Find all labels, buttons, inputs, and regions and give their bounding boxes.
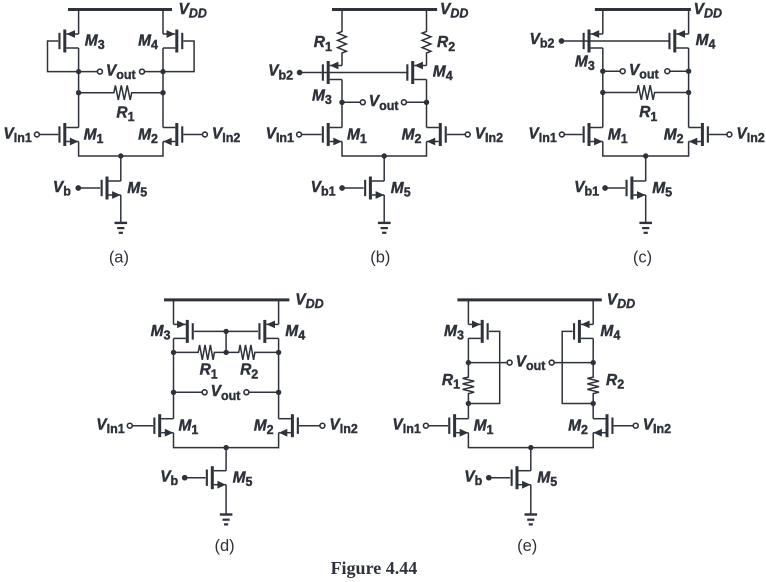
(c) transistor M3 (PMOS current source) xyxy=(583,30,603,53)
(a) wire: right branch M4 drain to M2 drain xyxy=(162,48,164,128)
(d) wire: VDD rail to M3 source xyxy=(173,300,175,325)
svg-text:M2: M2 xyxy=(402,126,422,146)
(e) resistor R1 feedback xyxy=(463,363,475,404)
svg-text:M2: M2 xyxy=(568,418,588,438)
(c) wire: Vb1 to M5 gate xyxy=(605,187,625,189)
svg-text:M2: M2 xyxy=(664,126,684,146)
(e) input terminal Vin1 xyxy=(423,423,428,428)
(a) wire: M5 source to ground xyxy=(120,195,122,222)
(a) wire: VDD rail to M3 source xyxy=(78,10,80,35)
(a) transistor M1 (NMOS input) xyxy=(58,123,78,146)
svg-text:M2: M2 xyxy=(254,418,274,438)
(c) node: tail junction xyxy=(643,153,648,158)
(d) wire: M1 source to tail node xyxy=(174,433,227,448)
(e) transistor M3 (PMOS) xyxy=(468,320,488,343)
(a) wire: M2 source to tail node xyxy=(121,142,163,157)
(c) wire: tail node to M5 drain xyxy=(645,156,647,181)
svg-text:VDD: VDD xyxy=(607,291,635,311)
(b) node: left output junction xyxy=(339,100,344,105)
(a) wire: M1 source to tail node xyxy=(79,142,121,157)
(a) input terminal Vin2 xyxy=(202,132,207,137)
(d) wire: M4 drain to R2 node xyxy=(278,338,280,352)
(d) resistor R2 xyxy=(226,345,279,360)
(a) wire: VDD rail to M4 source xyxy=(162,10,164,35)
(d) transistor M2 (NMOS input) xyxy=(279,414,299,437)
svg-text:VIn2: VIn2 xyxy=(643,417,671,437)
(e) wire: R2 bottom to M2 drain xyxy=(592,404,594,419)
(e) resistor R2 feedback xyxy=(587,363,599,404)
(e) transistor M5 (NMOS tail current source) xyxy=(511,466,531,489)
svg-text:VDD: VDD xyxy=(694,1,722,21)
(b) wire: Vb2 to M3 and M4 gates xyxy=(299,72,407,74)
(a) transistor M2 (NMOS input) xyxy=(163,123,183,146)
(c) wire: right output node to Vout terminal xyxy=(670,70,689,72)
(c) bias terminal Vb2 dot xyxy=(559,38,565,44)
(e) wire: M3 drain to left output node xyxy=(467,338,469,362)
(e) bias terminal Vb dot xyxy=(486,475,492,481)
(d) wire: right output to M2 drain xyxy=(278,392,280,418)
(d) wire: Vin1 terminal to M1 gate xyxy=(132,425,153,427)
(a) wire: tail node to M5 drain xyxy=(120,156,122,181)
(e) wire: M4 gate feedback to R2 bottom xyxy=(562,331,593,403)
svg-text:VDD: VDD xyxy=(295,291,323,311)
(b) input terminal Vin1 xyxy=(297,132,302,137)
svg-text:R1: R1 xyxy=(116,104,134,124)
svg-text:(c): (c) xyxy=(633,248,652,266)
(b) terminal circle left Vout xyxy=(360,100,365,105)
svg-text:M3: M3 xyxy=(312,87,332,107)
(e) wire: M1 source to tail node xyxy=(468,433,530,448)
(e) wire: tail node to M5 drain xyxy=(530,448,532,471)
(d) terminal circle left Vout xyxy=(202,390,207,395)
(e) ground symbol xyxy=(525,515,538,525)
svg-text:M5: M5 xyxy=(537,470,557,490)
svg-text:Vb2: Vb2 xyxy=(268,63,293,83)
svg-text:VIn1: VIn1 xyxy=(392,417,420,437)
svg-text:Vb: Vb xyxy=(53,179,71,199)
(e) wire: M2 gate to Vin2 terminal xyxy=(614,425,634,427)
(c) bias terminal Vb1 dot xyxy=(602,185,608,191)
(e) wire: M5 source to ground xyxy=(530,485,532,514)
(e) wire: left output node to Vout terminal xyxy=(468,362,507,364)
svg-text:M4: M4 xyxy=(433,64,453,84)
(c) wire: M2 source to tail node xyxy=(646,142,689,157)
svg-text:VIn1: VIn1 xyxy=(266,125,294,145)
(e) node: R2 bottom junction xyxy=(591,401,596,406)
(d) wire: left branch to output row xyxy=(173,352,175,392)
(d) wire: tail node to M5 drain xyxy=(225,448,227,471)
(d) node: left output junction xyxy=(171,390,176,395)
svg-text:M3: M3 xyxy=(444,323,464,343)
(e) wire: M4 drain to right output node xyxy=(592,338,594,362)
svg-text:M1: M1 xyxy=(179,418,199,438)
(c) transistor M2 (NMOS input) xyxy=(689,123,709,146)
(b) resistor R1 load xyxy=(338,10,347,66)
svg-text:VIn2: VIn2 xyxy=(212,125,240,145)
svg-text:Vb2: Vb2 xyxy=(530,31,555,51)
(c) node: R1 left junction xyxy=(600,90,605,95)
svg-text:M4: M4 xyxy=(138,33,158,53)
(a) wire: left branch M3 drain to M1 drain xyxy=(78,48,80,128)
(d) wire: right output node to Vout terminal xyxy=(249,391,279,393)
(c) resistor R1 between drains xyxy=(603,85,689,100)
svg-text:R1: R1 xyxy=(639,104,657,124)
svg-text:M3: M3 xyxy=(151,323,171,343)
(d) node: right output junction xyxy=(276,390,281,395)
svg-text:Vb: Vb xyxy=(464,469,482,489)
(d) wire: M5 source to ground xyxy=(225,485,227,514)
svg-text:VIn2: VIn2 xyxy=(736,125,764,145)
(b) wire: left output node to M1 drain xyxy=(341,102,343,127)
(d) wire: M3 drain to R1 node xyxy=(173,338,175,352)
svg-text:M1: M1 xyxy=(347,126,367,146)
(e) wire: Vin1 terminal to M1 gate xyxy=(428,425,448,427)
(a) wire: M2 gate to Vin2 terminal xyxy=(183,134,202,136)
(a) ground symbol xyxy=(115,223,128,233)
(d) transistor M3 (PMOS) xyxy=(174,320,194,343)
svg-text:R1: R1 xyxy=(314,34,332,54)
(d) ground symbol xyxy=(220,515,233,525)
(c) wire: Vb2 to M3 and M4 gates xyxy=(562,40,670,42)
svg-text:M1: M1 xyxy=(474,418,494,438)
(d) wire: gate midpoint to resistor midpoint xyxy=(225,331,227,352)
svg-text:R2: R2 xyxy=(606,372,624,392)
(d) node: gate midpoint junction xyxy=(223,329,228,334)
(b) node: right output junction xyxy=(424,100,429,105)
(e) node: right output junction xyxy=(591,360,596,365)
(d) bias terminal Vb dot xyxy=(182,475,188,481)
(b) transistor M5 (NMOS tail current source) xyxy=(364,177,384,200)
(a) node: R1 left junction xyxy=(76,90,81,95)
(b) wire: Vb1 to M5 gate xyxy=(342,187,364,189)
(a) node: R1 right junction xyxy=(160,90,165,95)
(c) transistor M5 (NMOS tail current source) xyxy=(626,177,646,200)
(a) transistor M3 (diode-connected PMOS) xyxy=(58,30,78,53)
svg-text:M4: M4 xyxy=(696,32,716,52)
(b) wire: M2 gate to Vin2 terminal xyxy=(447,134,466,136)
(d) node: R2 right junction xyxy=(276,350,281,355)
(b) input terminal Vin2 xyxy=(465,132,470,137)
(e) wire: VDD rail to M4 source xyxy=(592,300,594,325)
svg-text:R2: R2 xyxy=(240,362,258,382)
(a) input terminal Vin1 xyxy=(34,132,39,137)
svg-text:VIn1: VIn1 xyxy=(96,417,124,437)
(e) terminal circle right Vout xyxy=(549,360,554,365)
(c) wire: M2 gate to Vin2 terminal xyxy=(709,134,727,136)
(d) wire: left output to M1 drain xyxy=(173,392,175,418)
(e) node: tail junction xyxy=(528,445,533,450)
svg-text:Vb: Vb xyxy=(160,469,178,489)
svg-text:M4: M4 xyxy=(285,323,305,343)
(d) node: R1/R2 midpoint junction xyxy=(223,350,228,355)
(c) VDD supply rail xyxy=(595,8,691,11)
svg-text:Vout: Vout xyxy=(516,353,547,373)
(c) node: left output junction xyxy=(600,69,605,74)
svg-text:VDD: VDD xyxy=(440,1,468,21)
(a) wire: Vin1 terminal to M1 gate xyxy=(39,134,58,136)
(b) wire: M5 source to ground xyxy=(383,195,385,222)
(e) wire: VDD rail to M3 source xyxy=(467,300,469,325)
(a) terminal circle left Vout xyxy=(97,69,102,74)
(e) terminal circle left Vout xyxy=(507,360,512,365)
svg-text:M5: M5 xyxy=(652,180,672,200)
(c) node: R1 right junction xyxy=(686,90,691,95)
(d) terminal circle right Vout xyxy=(244,390,249,395)
(b) bias terminal Vb2 dot xyxy=(297,70,303,76)
(a) node: tail junction xyxy=(118,153,123,158)
(a) wire: M4 gate-drain diode connection xyxy=(163,41,194,72)
(d) wire: M3 gate to M4 gate xyxy=(194,330,258,332)
svg-text:Vout: Vout xyxy=(211,383,242,403)
svg-text:Figure 4.44: Figure 4.44 xyxy=(331,558,418,578)
svg-text:Vout: Vout xyxy=(629,62,660,82)
(c) ground symbol xyxy=(639,223,652,233)
(b) bias terminal Vb1 dot xyxy=(339,185,345,191)
svg-text:M5: M5 xyxy=(391,180,411,200)
(c) terminal circle left Vout xyxy=(620,69,625,74)
(a) resistor R1 between drains xyxy=(79,85,163,100)
svg-text:VIn1: VIn1 xyxy=(528,125,556,145)
(e) wire: R1 bottom to M1 drain xyxy=(467,404,469,419)
(a) node: left output junction xyxy=(76,69,81,74)
(d) wire: left output node to Vout terminal xyxy=(174,391,203,393)
svg-text:VIn2: VIn2 xyxy=(329,417,357,437)
svg-text:M1: M1 xyxy=(608,126,628,146)
(a) VDD supply rail xyxy=(68,8,172,11)
(b) node: tail junction xyxy=(382,153,387,158)
(b) transistor M2 (NMOS input) xyxy=(427,123,447,146)
(b) resistor R2 load xyxy=(422,10,431,66)
(d) transistor M5 (NMOS tail current source) xyxy=(206,466,226,489)
(c) wire: M1 source to tail node xyxy=(603,142,646,157)
(e) transistor M1 (NMOS input) xyxy=(448,414,468,437)
svg-text:VIn1: VIn1 xyxy=(3,125,31,145)
(e) wire: Vb to M5 gate xyxy=(489,477,510,479)
(d) wire: right branch to output row xyxy=(278,352,280,392)
(e) wire: right output node to Vout terminal xyxy=(554,362,593,364)
svg-text:Vb1: Vb1 xyxy=(311,179,336,199)
(b) wire: M2 source to tail node xyxy=(384,142,426,157)
svg-text:Vb1: Vb1 xyxy=(574,179,599,199)
svg-text:M1: M1 xyxy=(84,126,104,146)
(d) wire: Vb to M5 gate xyxy=(185,477,206,479)
(c) wire: left output node to Vout terminal xyxy=(603,70,621,72)
(a) node: right output junction xyxy=(160,69,165,74)
svg-text:Vout: Vout xyxy=(369,93,400,113)
(b) wire: left output node to Vout terminal xyxy=(342,101,361,103)
(e) transistor M2 (NMOS input) xyxy=(593,414,613,437)
svg-text:(b): (b) xyxy=(370,248,390,266)
(b) wire: tail node to M5 drain xyxy=(383,156,385,181)
svg-text:(a): (a) xyxy=(109,248,129,266)
(c) transistor M1 (NMOS input) xyxy=(583,123,603,146)
(c) transistor M4 (PMOS current source) xyxy=(668,30,688,53)
(c) wire: right branch output to R1 xyxy=(688,71,690,127)
(b) wire: right output node to M2 drain xyxy=(426,102,428,127)
(a) transistor M4 (diode-connected PMOS) xyxy=(163,30,183,53)
(b) wire: M4 drain to right output node xyxy=(426,80,428,103)
(b) wire: Vin1 terminal to M1 gate xyxy=(301,134,321,136)
(e) input terminal Vin2 xyxy=(633,423,638,428)
(b) ground symbol xyxy=(378,223,391,233)
(c) wire: VDD rail to M3 source xyxy=(602,10,604,35)
(d) input terminal Vin1 xyxy=(127,423,132,428)
(e) wire: M2 source to tail node xyxy=(531,433,593,448)
svg-text:M2: M2 xyxy=(138,126,158,146)
(c) wire: M4 drain to right output node xyxy=(688,48,690,71)
(d) wire: M2 source to tail node xyxy=(226,433,279,448)
svg-text:(e): (e) xyxy=(517,537,537,555)
svg-text:M4: M4 xyxy=(600,323,620,343)
(c) input terminal Vin1 xyxy=(559,132,564,137)
(e) wire: M3 gate feedback to R1 bottom xyxy=(468,331,499,403)
(e) VDD supply rail xyxy=(457,298,601,301)
(d) transistor M4 (PMOS) xyxy=(258,320,278,343)
(c) terminal circle right Vout xyxy=(665,69,670,74)
svg-text:M5: M5 xyxy=(127,180,147,200)
svg-text:M3: M3 xyxy=(575,53,595,73)
(a) bias terminal Vb dot xyxy=(75,185,81,191)
svg-text:(d): (d) xyxy=(215,537,235,555)
svg-text:Vout: Vout xyxy=(106,62,137,82)
(c) wire: VDD rail to M4 source xyxy=(688,10,690,35)
(c) wire: M5 source to ground xyxy=(645,195,647,222)
(a) transistor M5 (NMOS tail current source) xyxy=(101,177,121,200)
(a) terminal circle right Vout xyxy=(140,69,145,74)
svg-text:M5: M5 xyxy=(233,470,253,490)
svg-text:R2: R2 xyxy=(437,34,455,54)
(d) input terminal Vin2 xyxy=(320,423,325,428)
(c) wire: Vin1 terminal to M1 gate xyxy=(564,134,582,136)
svg-text:M3: M3 xyxy=(85,33,105,53)
(c) wire: M3 drain to left output node xyxy=(602,48,604,71)
(b) terminal circle right Vout xyxy=(401,100,406,105)
(a) wire: Vb to M5 gate xyxy=(78,187,100,189)
svg-text:VIn2: VIn2 xyxy=(475,125,503,145)
(d) wire: M2 gate to Vin2 terminal xyxy=(299,425,320,427)
(a) wire: right output node to Vout terminal xyxy=(144,71,163,73)
(a) wire: left output node to Vout terminal xyxy=(79,71,98,73)
svg-text:VDD: VDD xyxy=(179,1,207,21)
(b) wire: M1 source to tail node xyxy=(342,142,384,157)
(d) node: tail junction xyxy=(223,445,228,450)
(d) resistor R1 xyxy=(174,345,227,360)
(b) wire: M3 drain to left output node xyxy=(341,80,343,103)
(c) wire: left branch output to R1 xyxy=(602,71,604,127)
(d) wire: VDD rail to M4 source xyxy=(278,300,280,325)
(d) node: R1 left junction xyxy=(171,350,176,355)
(d) VDD supply rail xyxy=(164,298,289,301)
(e) transistor M4 (PMOS) xyxy=(573,320,593,343)
(e) node: left output junction xyxy=(466,360,471,365)
(c) input terminal Vin2 xyxy=(727,132,732,137)
(b) wire: right output node to Vout terminal xyxy=(406,101,426,103)
svg-text:R1: R1 xyxy=(200,362,218,382)
(b) transistor M1 (NMOS input) xyxy=(322,123,342,146)
(a) wire: M3 gate-drain diode connection xyxy=(48,41,79,72)
(b) transistor M3 (PMOS cascode) xyxy=(322,61,342,84)
(b) transistor M4 (PMOS cascode) xyxy=(406,61,426,84)
(b) VDD supply rail xyxy=(332,8,437,11)
(c) node: right output junction xyxy=(686,69,691,74)
(e) node: R1 bottom junction xyxy=(466,401,471,406)
svg-text:R1: R1 xyxy=(442,372,460,392)
(d) transistor M1 (NMOS input) xyxy=(153,414,173,437)
